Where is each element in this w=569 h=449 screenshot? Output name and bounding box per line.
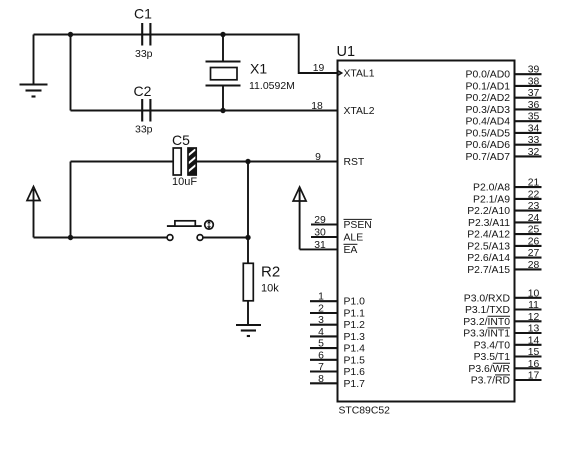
switch S1 push-button xyxy=(167,221,213,241)
svg-text:P2.7/A15: P2.7/A15 xyxy=(467,265,510,276)
wire R2 branch vertical xyxy=(247,162,249,264)
svg-text:7: 7 xyxy=(318,362,324,373)
pin stubs P3.0-P3.7 (10-17) xyxy=(515,298,542,380)
svg-text:P2.4/A12: P2.4/A12 xyxy=(467,230,510,241)
wire EA pin xyxy=(300,248,338,250)
node junction RST / R2 xyxy=(245,159,250,164)
svg-text:C1: C1 xyxy=(134,6,152,22)
pin numbers 21-28 xyxy=(528,178,540,271)
svg-text:3: 3 xyxy=(318,315,324,326)
svg-text:21: 21 xyxy=(528,178,540,189)
svg-text:U1: U1 xyxy=(337,44,356,60)
svg-text:C5: C5 xyxy=(172,132,190,148)
svg-text:11: 11 xyxy=(528,300,539,311)
svg-text:XTAL2: XTAL2 xyxy=(344,106,375,117)
svg-text:P1.7: P1.7 xyxy=(344,379,366,390)
wire C2 branch vertical xyxy=(70,35,72,111)
svg-text:29: 29 xyxy=(314,215,326,226)
wire XTAL1 net top rail xyxy=(34,35,338,74)
svg-text:P0.6/AD6: P0.6/AD6 xyxy=(466,140,511,151)
pin numbers 39-32 xyxy=(528,65,540,158)
svg-text:P3.6/WR: P3.6/WR xyxy=(468,364,510,375)
svg-text:P3.0/RXD: P3.0/RXD xyxy=(464,293,510,304)
svg-text:P1.2: P1.2 xyxy=(344,320,366,331)
svg-text:4: 4 xyxy=(318,327,324,338)
svg-text:16: 16 xyxy=(528,359,540,370)
svg-text:P0.0/AD0: P0.0/AD0 xyxy=(466,70,511,81)
svg-text:STC89C52: STC89C52 xyxy=(339,405,391,416)
svg-text:R2: R2 xyxy=(261,264,280,281)
capacitor C2 xyxy=(134,83,153,136)
svg-text:33p: 33p xyxy=(135,48,153,60)
svg-text:P2.2/A10: P2.2/A10 xyxy=(467,206,510,217)
svg-text:34: 34 xyxy=(528,123,540,134)
svg-text:P1.1: P1.1 xyxy=(344,309,366,320)
svg-text:10k: 10k xyxy=(261,283,279,295)
wire XTAL2 net xyxy=(71,110,338,112)
pin names P1.0-P1.7 xyxy=(344,297,366,390)
svg-text:13: 13 xyxy=(528,324,540,335)
svg-text:23: 23 xyxy=(528,201,540,212)
svg-text:30: 30 xyxy=(314,228,326,239)
svg-text:P0.1/AD1: P0.1/AD1 xyxy=(466,81,511,92)
svg-text:38: 38 xyxy=(528,76,540,87)
svg-text:P1.5: P1.5 xyxy=(344,355,366,366)
wire button row xyxy=(34,237,249,239)
svg-text:5: 5 xyxy=(318,339,324,350)
svg-text:P0.2/AD2: P0.2/AD2 xyxy=(466,93,511,104)
svg-text:P1.4: P1.4 xyxy=(344,344,366,355)
svg-text:10: 10 xyxy=(528,288,540,299)
svg-text:P2.0/A8: P2.0/A8 xyxy=(473,183,510,194)
pin names P2.0/A8-P2.7/A15 xyxy=(467,183,510,276)
pin names P3.0-P3.7 xyxy=(463,293,510,386)
node junction X1 bottom xyxy=(220,108,225,113)
node junction button row right xyxy=(245,235,250,240)
svg-text:28: 28 xyxy=(528,260,540,271)
svg-text:P0.4/AD4: P0.4/AD4 xyxy=(466,117,511,128)
svg-text:2: 2 xyxy=(318,304,324,315)
pin XTAL1 input arrow xyxy=(338,71,342,75)
ground GND1 (top-left) xyxy=(20,35,48,97)
wire RST to VCC branch vertical xyxy=(70,162,72,238)
svg-text:EA: EA xyxy=(344,245,358,256)
svg-text:22: 22 xyxy=(528,189,540,200)
svg-text:RST: RST xyxy=(344,157,365,168)
pin numbers 1-8 xyxy=(318,292,324,385)
svg-text:32: 32 xyxy=(528,147,540,158)
crystal X1 xyxy=(206,35,295,111)
power VCC arrow 1 xyxy=(27,187,40,238)
power VCC arrow 2 (EA pin) xyxy=(293,187,306,249)
svg-text:10uF: 10uF xyxy=(172,176,197,188)
svg-text:P2.1/A9: P2.1/A9 xyxy=(473,194,510,205)
svg-text:8: 8 xyxy=(318,374,324,385)
svg-text:P0.5/AD5: P0.5/AD5 xyxy=(466,128,511,139)
svg-text:1: 1 xyxy=(318,292,324,303)
svg-text:31: 31 xyxy=(314,240,326,251)
svg-text:33: 33 xyxy=(528,135,540,146)
svg-text:P1.6: P1.6 xyxy=(344,367,366,378)
svg-text:P3.5/T1: P3.5/T1 xyxy=(474,352,511,363)
pin stub ALE 30 xyxy=(311,236,338,238)
svg-text:35: 35 xyxy=(528,112,540,123)
svg-text:25: 25 xyxy=(528,225,540,236)
svg-text:11.0592M: 11.0592M xyxy=(249,80,295,92)
svg-text:P2.3/A11: P2.3/A11 xyxy=(468,218,510,229)
node junction top rail / C2 branch xyxy=(68,32,73,37)
pin stubs P0.0-P0.7 (39-32) xyxy=(515,74,542,156)
svg-text:P3.3/INT1: P3.3/INT1 xyxy=(463,329,510,340)
capacitor C5 (electrolytic) xyxy=(172,132,197,188)
pin stubs P1.0-P1.7 (1-8) xyxy=(310,301,338,383)
svg-text:P1.0: P1.0 xyxy=(344,297,366,308)
svg-text:P3.4/T0: P3.4/T0 xyxy=(474,340,511,351)
svg-text:24: 24 xyxy=(528,213,540,224)
svg-text:X1: X1 xyxy=(250,61,267,77)
capacitor C1 xyxy=(134,6,153,61)
svg-text:18: 18 xyxy=(311,101,323,112)
svg-text:37: 37 xyxy=(528,88,540,99)
wire R2 to ground xyxy=(247,301,249,325)
resistor R2 xyxy=(243,263,280,301)
svg-text:P1.3: P1.3 xyxy=(344,332,366,343)
svg-text:P2.5/A13: P2.5/A13 xyxy=(467,241,510,252)
node junction X1 top xyxy=(220,32,225,37)
svg-text:C2: C2 xyxy=(134,83,152,99)
IC U1 STC89C52 body xyxy=(337,44,515,416)
svg-text:P3.1/TXD: P3.1/TXD xyxy=(465,305,510,316)
svg-text:PSEN: PSEN xyxy=(344,220,372,231)
svg-text:39: 39 xyxy=(528,65,540,76)
svg-text:ALE: ALE xyxy=(344,233,364,244)
svg-text:14: 14 xyxy=(528,335,540,346)
svg-text:P2.6/A14: P2.6/A14 xyxy=(467,253,510,264)
svg-text:27: 27 xyxy=(528,248,540,259)
svg-text:12: 12 xyxy=(528,312,540,323)
svg-text:P3.7/RD: P3.7/RD xyxy=(471,376,510,387)
svg-text:XTAL1: XTAL1 xyxy=(344,69,375,80)
svg-text:9: 9 xyxy=(315,152,321,163)
svg-text:P0.3/AD3: P0.3/AD3 xyxy=(466,105,511,116)
svg-text:17: 17 xyxy=(528,371,540,382)
svg-text:P0.7/AD7: P0.7/AD7 xyxy=(466,152,511,163)
pin stub PSEN 29 xyxy=(311,223,338,225)
wire RST net xyxy=(71,161,338,163)
svg-text:6: 6 xyxy=(318,350,324,361)
svg-text:33p: 33p xyxy=(135,124,153,136)
pin stubs P2.0-P2.7 (21-28) xyxy=(515,187,542,269)
svg-text:P3.2/INT0: P3.2/INT0 xyxy=(463,317,510,328)
pin names P0.0/AD0-P0.7/AD7 xyxy=(466,70,511,163)
svg-text:36: 36 xyxy=(528,100,540,111)
svg-text:19: 19 xyxy=(313,63,325,74)
svg-text:26: 26 xyxy=(528,236,540,247)
svg-text:15: 15 xyxy=(528,347,540,358)
node junction button row left xyxy=(68,235,73,240)
pin numbers 10-17 xyxy=(528,288,540,381)
ground GND2 (under R2) xyxy=(236,325,261,336)
